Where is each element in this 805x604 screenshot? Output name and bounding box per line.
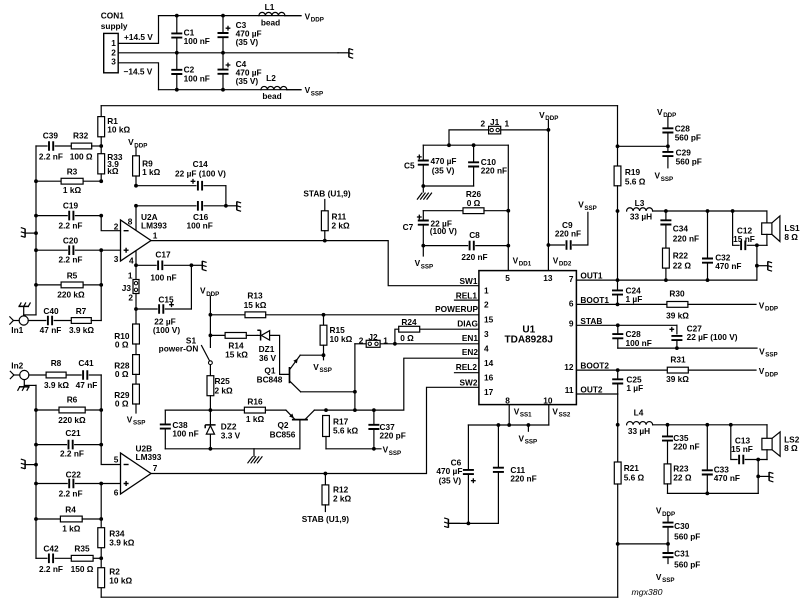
svg-text:7: 7: [569, 274, 574, 284]
wire U2A inverting input: [101, 216, 120, 231]
svg-text:15: 15: [484, 314, 494, 324]
svg-text:(35 V): (35 V): [236, 37, 259, 47]
jumper J1: [501, 129, 549, 131]
ground hatch below C5: [417, 193, 422, 200]
wire BOOT1 row / resistor R30: [576, 303, 667, 305]
svg-text:(35 V): (35 V): [439, 475, 462, 485]
svg-text:DDP: DDP: [545, 115, 558, 122]
svg-text:power-ON: power-ON: [159, 344, 199, 354]
wire left bus to In1 sleeve: [24, 314, 36, 316]
node bus R1/R33 junction: [99, 144, 103, 148]
svg-text:470 nF: 470 nF: [715, 261, 741, 271]
capacitor C21: [36, 444, 67, 446]
connector In1: [19, 316, 28, 325]
wire VDD2 vertical: [547, 120, 549, 270]
svg-text:DIAG: DIAG: [457, 318, 478, 328]
ground fork at LS1: [757, 265, 768, 267]
op-amp U2B: [121, 453, 152, 494]
svg-text:220 nF: 220 nF: [481, 166, 507, 176]
svg-text:0 Ω: 0 Ω: [400, 333, 414, 343]
svg-text:STAB: STAB: [580, 316, 602, 326]
svg-text:V: V: [305, 11, 311, 21]
capacitor C29 (560 pF): [667, 133, 669, 152]
svg-text:J1: J1: [490, 117, 500, 127]
svg-text:1: 1: [504, 119, 509, 129]
svg-text:C30: C30: [674, 521, 690, 531]
svg-text:5.6 Ω: 5.6 Ω: [625, 177, 646, 187]
svg-text:R31: R31: [670, 354, 686, 364]
svg-text:22 Ω: 22 Ω: [673, 261, 692, 271]
svg-text:R24: R24: [401, 317, 417, 327]
svg-text:V: V: [759, 366, 765, 376]
svg-text:(35 V): (35 V): [236, 76, 259, 86]
node VSSP at Q1 emitter: [322, 353, 326, 357]
svg-text:220 nF: 220 nF: [673, 233, 699, 243]
resistor R29: [135, 374, 137, 384]
svg-text:0 Ω: 0 Ω: [115, 369, 129, 379]
svg-text:36 V: 36 V: [259, 353, 277, 363]
svg-text:REL2: REL2: [456, 362, 478, 372]
wire C38 block top rail / R16 row: [165, 409, 244, 411]
svg-text:V: V: [305, 85, 311, 95]
svg-text:(100 V): (100 V): [430, 226, 457, 236]
svg-text:C7: C7: [403, 222, 414, 232]
svg-text:C5: C5: [404, 160, 415, 170]
svg-text:2.2 nF: 2.2 nF: [39, 152, 63, 162]
svg-text:R3: R3: [67, 167, 78, 177]
capacitor C42: [36, 557, 47, 559]
svg-text:13: 13: [543, 273, 553, 283]
svg-text:3.9 kΩ: 3.9 kΩ: [109, 538, 134, 548]
capacitor C30: [667, 516, 669, 523]
resistor R3: [36, 180, 61, 182]
svg-text:SSP: SSP: [525, 439, 537, 446]
wire CON1 pin1 to +rail: [118, 16, 158, 44]
wire + bus lower: [100, 484, 102, 598]
svg-text:R22: R22: [673, 251, 689, 261]
svg-text:DDP: DDP: [765, 371, 778, 378]
capacitor C20: [36, 249, 67, 251]
wire BOOT2 row / resistor R31: [576, 369, 667, 371]
svg-text:C34: C34: [673, 224, 689, 234]
svg-text:C17: C17: [155, 249, 171, 259]
capacitor C14: [134, 184, 138, 188]
svg-text:7: 7: [153, 463, 158, 473]
wire -supply bottom rail: [159, 89, 302, 91]
svg-text:C19: C19: [63, 201, 79, 211]
capacitor C16: [134, 204, 138, 208]
svg-text:1: 1: [153, 230, 158, 240]
capacitor C12: [733, 211, 740, 245]
capacitor C28 (100 nF): [617, 325, 619, 334]
wire VDD1 vertical: [507, 145, 509, 270]
svg-text:V: V: [552, 406, 558, 416]
svg-text:V: V: [578, 200, 584, 210]
svg-text:39 kΩ: 39 kΩ: [666, 311, 689, 321]
svg-text:100 nF: 100 nF: [172, 429, 198, 439]
svg-text:SSP: SSP: [765, 352, 777, 359]
svg-text:R32: R32: [73, 130, 89, 140]
capacitor C11: [497, 425, 499, 468]
ground fork at C17: [191, 264, 202, 266]
svg-text:3.9 kΩ: 3.9 kΩ: [69, 325, 94, 335]
svg-text:22 Ω: 22 Ω: [673, 472, 692, 482]
wire U2B output to SW2: [151, 387, 479, 473]
wire VSS1 pin: [508, 405, 510, 425]
svg-text:560 pF: 560 pF: [674, 559, 700, 569]
svg-text:15 nF: 15 nF: [731, 444, 753, 454]
wire L3 output node: [653, 210, 767, 212]
wire OUT2 row: [576, 393, 617, 395]
svg-text:V: V: [415, 258, 421, 268]
svg-text:100 nF: 100 nF: [184, 73, 210, 83]
svg-text:220 kΩ: 220 kΩ: [57, 289, 85, 299]
zener diode DZ1: [257, 330, 260, 340]
capacitor C41: [83, 370, 87, 380]
svg-text:REL1: REL1: [456, 291, 478, 301]
capacitor C6: [467, 425, 469, 470]
capacitor C32: [707, 211, 709, 259]
capacitor C25: [617, 370, 619, 379]
loudspeaker LS1: [766, 211, 768, 223]
svg-text:−14.5 V: −14.5 V: [124, 66, 153, 76]
svg-text:2: 2: [114, 221, 119, 231]
svg-text:47 nF: 47 nF: [76, 380, 98, 390]
svg-text:SS2: SS2: [559, 412, 571, 419]
capacitor C33: [706, 425, 708, 471]
svg-text:In1: In1: [11, 325, 23, 335]
resistor R1: [100, 106, 102, 117]
wire main bottom rail: [101, 596, 618, 598]
capacitor C7: [422, 211, 424, 221]
zener diode DZ2: [209, 410, 211, 425]
svg-text:DDP: DDP: [765, 306, 778, 313]
svg-text:100 nF: 100 nF: [187, 221, 213, 231]
svg-text:560 pF: 560 pF: [674, 531, 700, 541]
svg-text:1 kΩ: 1 kΩ: [246, 414, 265, 424]
svg-text:BC848: BC848: [257, 374, 283, 384]
svg-text:V: V: [200, 286, 206, 296]
svg-text:J2: J2: [368, 332, 378, 342]
capacitor C1: [176, 16, 178, 34]
capacitor C31: [667, 544, 669, 553]
svg-text:C39: C39: [43, 130, 59, 140]
ground hatch at C38 rail: [253, 449, 255, 457]
capacitor C2: [176, 53, 178, 70]
wire REL1 stub: [455, 299, 479, 301]
svg-text:100 nF: 100 nF: [184, 36, 210, 46]
wire CON1 pin2 mid rail (0 V): [118, 52, 338, 54]
svg-text:V: V: [655, 171, 661, 181]
ground fork on left bus (lower): [34, 463, 38, 467]
svg-text:2 kΩ: 2 kΩ: [333, 494, 352, 504]
svg-text:POWERUP: POWERUP: [435, 304, 478, 314]
wire OUT2 to L4: [617, 394, 619, 425]
svg-text:3: 3: [111, 57, 116, 67]
capacitor C39: [36, 145, 47, 147]
svg-text:DDP: DDP: [311, 17, 324, 24]
inductor L2: [261, 86, 287, 89]
resistor R9: [135, 148, 137, 156]
transistor Q1: [289, 367, 291, 383]
svg-text:+14.5 V: +14.5 V: [124, 32, 153, 42]
svg-text:10: 10: [543, 396, 553, 406]
svg-text:V: V: [127, 415, 133, 425]
resistor R28: [135, 344, 137, 355]
svg-text:EN1: EN1: [462, 333, 479, 343]
jumper J2 / EN1 row: [380, 343, 479, 345]
svg-text:220 nF: 220 nF: [673, 442, 699, 452]
resistor R34: [98, 528, 105, 548]
svg-text:220 kΩ: 220 kΩ: [58, 415, 86, 425]
svg-text:1 kΩ: 1 kΩ: [142, 167, 161, 177]
svg-text:L3: L3: [635, 198, 645, 208]
svg-text:4: 4: [129, 256, 134, 266]
capacitor C34: [665, 211, 667, 220]
svg-text:0 Ω: 0 Ω: [467, 198, 481, 208]
svg-text:kΩ: kΩ: [107, 166, 119, 176]
resistor R8: [29, 374, 46, 376]
svg-text:560 pF: 560 pF: [675, 132, 701, 142]
svg-text:R7: R7: [76, 306, 87, 316]
wire left bus to In2 sleeve: [24, 384, 36, 386]
svg-text:1: 1: [383, 335, 388, 345]
wire + input bus (upper): [100, 250, 102, 320]
resistor R14: [210, 334, 225, 336]
svg-text:33 µH: 33 µH: [628, 426, 650, 436]
wire C17/C15 loop right side: [190, 265, 192, 309]
resistor R17: [323, 416, 330, 437]
wire left ground bus lower: [35, 385, 37, 558]
resistor R19: [614, 166, 621, 186]
capacitor C24: [617, 280, 619, 290]
transistor Q2: [292, 419, 308, 421]
svg-text:220 nF: 220 nF: [510, 473, 536, 483]
IC U1 TDA8928J: [479, 271, 577, 405]
svg-text:R5: R5: [67, 271, 78, 281]
svg-text:150 Ω: 150 Ω: [71, 564, 94, 574]
svg-text:(35 V): (35 V): [432, 165, 455, 175]
svg-text:3: 3: [114, 254, 119, 264]
svg-text:C31: C31: [674, 549, 690, 559]
svg-text:16: 16: [484, 372, 494, 382]
svg-text:SW2: SW2: [460, 378, 478, 388]
svg-text:(100 V): (100 V): [153, 325, 180, 335]
capacitor C10: [473, 145, 475, 162]
capacitor C4: [222, 53, 224, 70]
wire REL2 stub: [455, 372, 479, 374]
svg-text:2.2 nF: 2.2 nF: [59, 489, 83, 499]
svg-text:R30: R30: [669, 289, 685, 299]
capacitor C8: [423, 245, 467, 247]
wire C30/C31 midpoint to R21 line: [618, 543, 668, 545]
wire C14/C16 loop right side: [225, 186, 227, 206]
ground fork at C16: [226, 205, 237, 207]
jumper J3: [135, 265, 137, 279]
resistor R4: [36, 518, 60, 520]
ground fork on mid rail: [338, 52, 349, 54]
svg-text:2.2 nF: 2.2 nF: [59, 220, 83, 230]
svg-text:2 kΩ: 2 kΩ: [215, 385, 234, 395]
svg-text:C20: C20: [63, 235, 79, 245]
svg-text:STAB (U1,9): STAB (U1,9): [302, 514, 350, 524]
svg-text:C42: C42: [43, 544, 59, 554]
wire right vertical top: [617, 106, 619, 166]
capacitor C9: [548, 244, 564, 246]
capacitor C17: [134, 263, 138, 267]
svg-text:8 Ω: 8 Ω: [784, 443, 798, 453]
svg-text:1: 1: [111, 38, 116, 48]
svg-text:SSP: SSP: [133, 420, 145, 427]
svg-text:BOOT2: BOOT2: [580, 361, 609, 371]
svg-text:V: V: [759, 300, 765, 310]
svg-text:4: 4: [484, 343, 489, 353]
svg-text:OUT1: OUT1: [580, 271, 603, 281]
loudspeaker LS2: [766, 425, 768, 439]
svg-text:22 µF (100 V): 22 µF (100 V): [687, 332, 738, 342]
svg-text:9: 9: [569, 318, 574, 328]
wire J2 pin2 vertical: [354, 344, 356, 410]
svg-text:CON1: CON1: [101, 11, 124, 21]
svg-text:100 nF: 100 nF: [626, 338, 652, 348]
inductor L1: [259, 12, 285, 15]
resistor R2: [98, 568, 105, 588]
svg-text:33 µH: 33 µH: [630, 212, 652, 222]
ground fork at LS2: [758, 475, 769, 477]
svg-text:3.3 V: 3.3 V: [221, 430, 241, 440]
capacitor C3: [222, 16, 224, 33]
svg-text:10 kΩ: 10 kΩ: [107, 124, 130, 134]
resistor R33: [100, 146, 102, 154]
svg-text:10 kΩ: 10 kΩ: [109, 576, 132, 586]
svg-text:DDP: DDP: [206, 291, 219, 298]
resistor R32: [71, 143, 91, 149]
svg-text:220 nF: 220 nF: [461, 252, 487, 262]
resistor R10: [135, 309, 137, 324]
svg-text:3.9 kΩ: 3.9 kΩ: [44, 380, 69, 390]
wire Q1 collector to J2 net: [301, 391, 355, 393]
wire U2B non-inverting input: [101, 483, 120, 485]
svg-text:EN2: EN2: [462, 347, 479, 357]
inductor L4: [627, 422, 653, 425]
wire C38 block bottom rail: [165, 448, 300, 450]
capacitor C22: [36, 483, 67, 485]
svg-text:LM393: LM393: [141, 221, 167, 231]
wire STAB bottom rail to VSSP: [618, 347, 757, 349]
svg-text:5: 5: [505, 273, 510, 283]
svg-text:V: V: [313, 362, 319, 372]
wire STAB row: [576, 324, 677, 326]
svg-text:220 nF: 220 nF: [555, 228, 581, 238]
ground fork on left bus (upper): [34, 231, 38, 235]
svg-text:SS1: SS1: [520, 412, 532, 419]
svg-text:V: V: [513, 255, 519, 265]
wire OUT1 row: [576, 279, 757, 281]
svg-text:L4: L4: [634, 408, 644, 418]
wire In2 row to U2B minus bus: [101, 375, 120, 465]
svg-text:STAB (U1,9): STAB (U1,9): [303, 189, 351, 199]
svg-text:12: 12: [564, 362, 574, 372]
svg-text:V: V: [553, 255, 559, 265]
capacitor C35: [667, 425, 669, 437]
capacitor C38: [164, 410, 166, 424]
svg-text:1 kΩ: 1 kΩ: [63, 185, 82, 195]
svg-text:C15: C15: [158, 294, 174, 304]
svg-text:L2: L2: [266, 73, 276, 83]
wire left ground bus upper: [35, 146, 37, 315]
svg-text:2: 2: [128, 293, 133, 303]
resistor R25: [209, 365, 211, 376]
wire VSS rail: [468, 424, 548, 426]
resistor R5: [36, 284, 61, 286]
wire main top rail: [101, 105, 617, 107]
node VSSP below VSS rail: [527, 425, 529, 431]
resistor R6: [36, 409, 59, 411]
svg-text:V: V: [759, 346, 765, 356]
svg-text:C21: C21: [65, 428, 81, 438]
wire LS2 network bottom rail: [668, 492, 759, 494]
svg-text:R16: R16: [247, 396, 263, 406]
svg-text:bead: bead: [261, 17, 280, 27]
switch S1: [202, 346, 210, 361]
node VSSP below R29: [135, 404, 137, 413]
svg-text:560 pF: 560 pF: [676, 157, 702, 167]
svg-text:R19: R19: [625, 167, 641, 177]
svg-text:8 Ω: 8 Ω: [784, 232, 798, 242]
capacitor C15: [134, 307, 138, 311]
svg-text:DD2: DD2: [559, 261, 572, 268]
capacitor C27: [676, 325, 678, 334]
svg-text:BOOT1: BOOT1: [580, 295, 609, 305]
ground fork at In2: [23, 380, 25, 387]
svg-text:SSP: SSP: [421, 263, 433, 270]
svg-text:22 µF (100 V): 22 µF (100 V): [175, 168, 226, 178]
svg-text:15 kΩ: 15 kΩ: [244, 300, 267, 310]
resistor R11: [324, 200, 326, 211]
svg-text:SSP: SSP: [320, 367, 332, 374]
svg-text:100 Ω: 100 Ω: [70, 152, 93, 162]
wire ground rail below C6/C11: [449, 522, 499, 524]
svg-text:R4: R4: [65, 505, 76, 515]
svg-text:2.2 nF: 2.2 nF: [59, 255, 83, 265]
capacitor C28 (560 pF): [667, 117, 669, 129]
svg-text:DDP: DDP: [662, 511, 675, 518]
resistor R23: [664, 464, 671, 484]
svg-text:LM393: LM393: [136, 452, 162, 462]
svg-text:supply: supply: [101, 21, 128, 31]
inductor L3: [627, 208, 653, 211]
wire VDDP vertical to S1: [209, 296, 211, 347]
resistor R16: [244, 407, 265, 413]
resistor R7: [71, 318, 91, 324]
svg-text:1 kΩ: 1 kΩ: [62, 524, 81, 534]
svg-text:5.6 kΩ: 5.6 kΩ: [333, 425, 358, 435]
resistor R22: [663, 248, 670, 268]
svg-text:V: V: [657, 107, 663, 117]
svg-text:47 nF: 47 nF: [40, 325, 62, 335]
svg-text:DDP: DDP: [663, 112, 676, 119]
svg-text:2 kΩ: 2 kΩ: [332, 220, 351, 230]
svg-text:SSP: SSP: [311, 90, 323, 97]
svg-text:BC856: BC856: [270, 429, 296, 439]
svg-text:0 Ω: 0 Ω: [115, 340, 129, 350]
svg-text:15 kΩ: 15 kΩ: [225, 349, 248, 359]
resistor R24 / DIAG row: [420, 328, 479, 330]
svg-text:1 µF: 1 µF: [626, 383, 643, 393]
resistor R21: [617, 425, 619, 462]
svg-text:In2: In2: [11, 361, 23, 371]
wire VSS2 pin: [548, 405, 550, 425]
